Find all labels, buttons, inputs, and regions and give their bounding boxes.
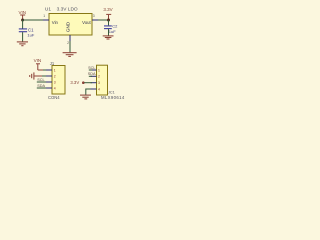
svg-text:CON4: CON4 — [48, 95, 60, 100]
svg-text:Vout: Vout — [82, 20, 91, 25]
svg-text:3: 3 — [93, 14, 95, 18]
svg-text:VIN: VIN — [34, 58, 42, 63]
ground (under C2) — [103, 36, 114, 39]
power flag 3.3V (bottom) — [70, 80, 84, 85]
J1 pin stubs — [46, 70, 52, 88]
svg-text:JC1: JC1 — [108, 90, 115, 94]
svg-text:1uF: 1uF — [27, 33, 34, 38]
svg-text:SDA: SDA — [88, 72, 96, 76]
svg-text:1uF: 1uF — [109, 29, 116, 34]
connector JC1 body (MLX90614) — [97, 65, 108, 95]
power flag VIN (top-left) — [19, 10, 27, 20]
ground (under JC1) — [80, 95, 91, 99]
wire 3.3V to JC1 pin3 — [84, 82, 92, 84]
capacitor C2 — [104, 24, 118, 34]
wire U1 Vout to 3.3V node — [98, 19, 109, 21]
wire SCL to JC1 pin1 — [89, 69, 92, 71]
wire C1 to ground — [22, 32, 24, 41]
svg-text:3: 3 — [54, 80, 56, 84]
svg-text:1: 1 — [98, 68, 100, 72]
svg-text:VIN: VIN — [19, 10, 27, 15]
wire U1 GND to ground — [69, 41, 71, 52]
ground (under U1) — [63, 53, 77, 57]
svg-text:SDA: SDA — [37, 84, 45, 88]
wire VIN down to C1 — [22, 20, 24, 29]
power flag VIN (bottom) — [34, 58, 42, 70]
node VIN junction — [21, 19, 24, 22]
JC1 pin numbers 1-4 — [98, 68, 100, 91]
pin 3 stub (U1 Vout) — [92, 19, 98, 21]
wire JC1 pin4 to ground — [86, 88, 91, 90]
wire C2 to ground — [108, 29, 110, 36]
wire VIN to U1 pin 1 — [23, 19, 43, 21]
wire VIN to J1 pin1 — [38, 69, 43, 71]
svg-text:C2: C2 — [112, 24, 118, 29]
wire 3.3V node down to C2 — [108, 20, 110, 25]
op U1 LDO body — [49, 14, 92, 36]
connector J1 body (CON4) — [52, 66, 65, 95]
node 3.3V junction — [107, 19, 110, 22]
svg-text:2: 2 — [98, 75, 100, 79]
svg-text:3.3V: 3.3V — [103, 7, 112, 12]
wire SDA to JC1 pin2 — [89, 75, 92, 77]
capacitor C1 — [19, 27, 35, 37]
svg-text:3.3V: 3.3V — [70, 80, 79, 85]
wire J1 pin3 (SCL) — [37, 81, 46, 83]
svg-text:C1: C1 — [28, 27, 34, 32]
svg-text:U1: U1 — [45, 7, 51, 13]
power flag 3.3V (top-right) — [103, 7, 112, 20]
svg-text:4: 4 — [98, 87, 100, 91]
svg-text:1: 1 — [43, 14, 45, 18]
wire down to ground — [85, 89, 87, 95]
svg-text:SCL: SCL — [88, 66, 95, 70]
ground (left of J1, sideways) — [30, 72, 34, 79]
svg-text:SCL: SCL — [37, 78, 44, 82]
pin 1 stub (U1 Vin) — [43, 19, 49, 21]
svg-text:2: 2 — [67, 41, 69, 45]
svg-text:4: 4 — [54, 86, 56, 90]
J1 pin numbers 1-4 — [54, 68, 56, 90]
JC1 pin stubs — [91, 70, 97, 89]
svg-text:2: 2 — [54, 74, 56, 78]
svg-text:3.3V LDO: 3.3V LDO — [57, 7, 78, 13]
svg-text:MLX90614: MLX90614 — [101, 95, 125, 100]
wire J1 pin4 (SDA) — [37, 87, 46, 89]
ground (under C1) — [17, 42, 28, 46]
pin 2 stub (U1 GND) — [69, 35, 71, 41]
svg-text:GND: GND — [66, 21, 71, 32]
wire J1 pin2 to ground — [34, 75, 42, 77]
svg-text:Vin: Vin — [52, 20, 59, 25]
svg-text:1: 1 — [54, 68, 56, 72]
svg-text:3: 3 — [98, 81, 100, 85]
